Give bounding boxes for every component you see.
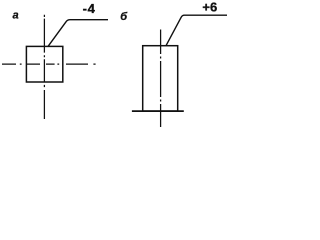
rectangle (right figure body) [143,46,178,111]
svg-text:б: б [120,11,128,23]
horizontal center line (left figure), y=64.1 [2,63,96,65]
svg-text:а: а [13,10,19,22]
leader line for -4 [48,20,108,47]
vertical center line (left figure), x=44.4 [43,15,45,119]
leader line for +6 [166,15,227,46]
vertical center line (right figure), x=160.6 [160,30,162,128]
svg-text:+6: +6 [202,0,217,15]
svg-text:-4: -4 [83,1,96,16]
square (left figure body) [26,46,62,82]
base surface line (right figure) [132,110,184,112]
